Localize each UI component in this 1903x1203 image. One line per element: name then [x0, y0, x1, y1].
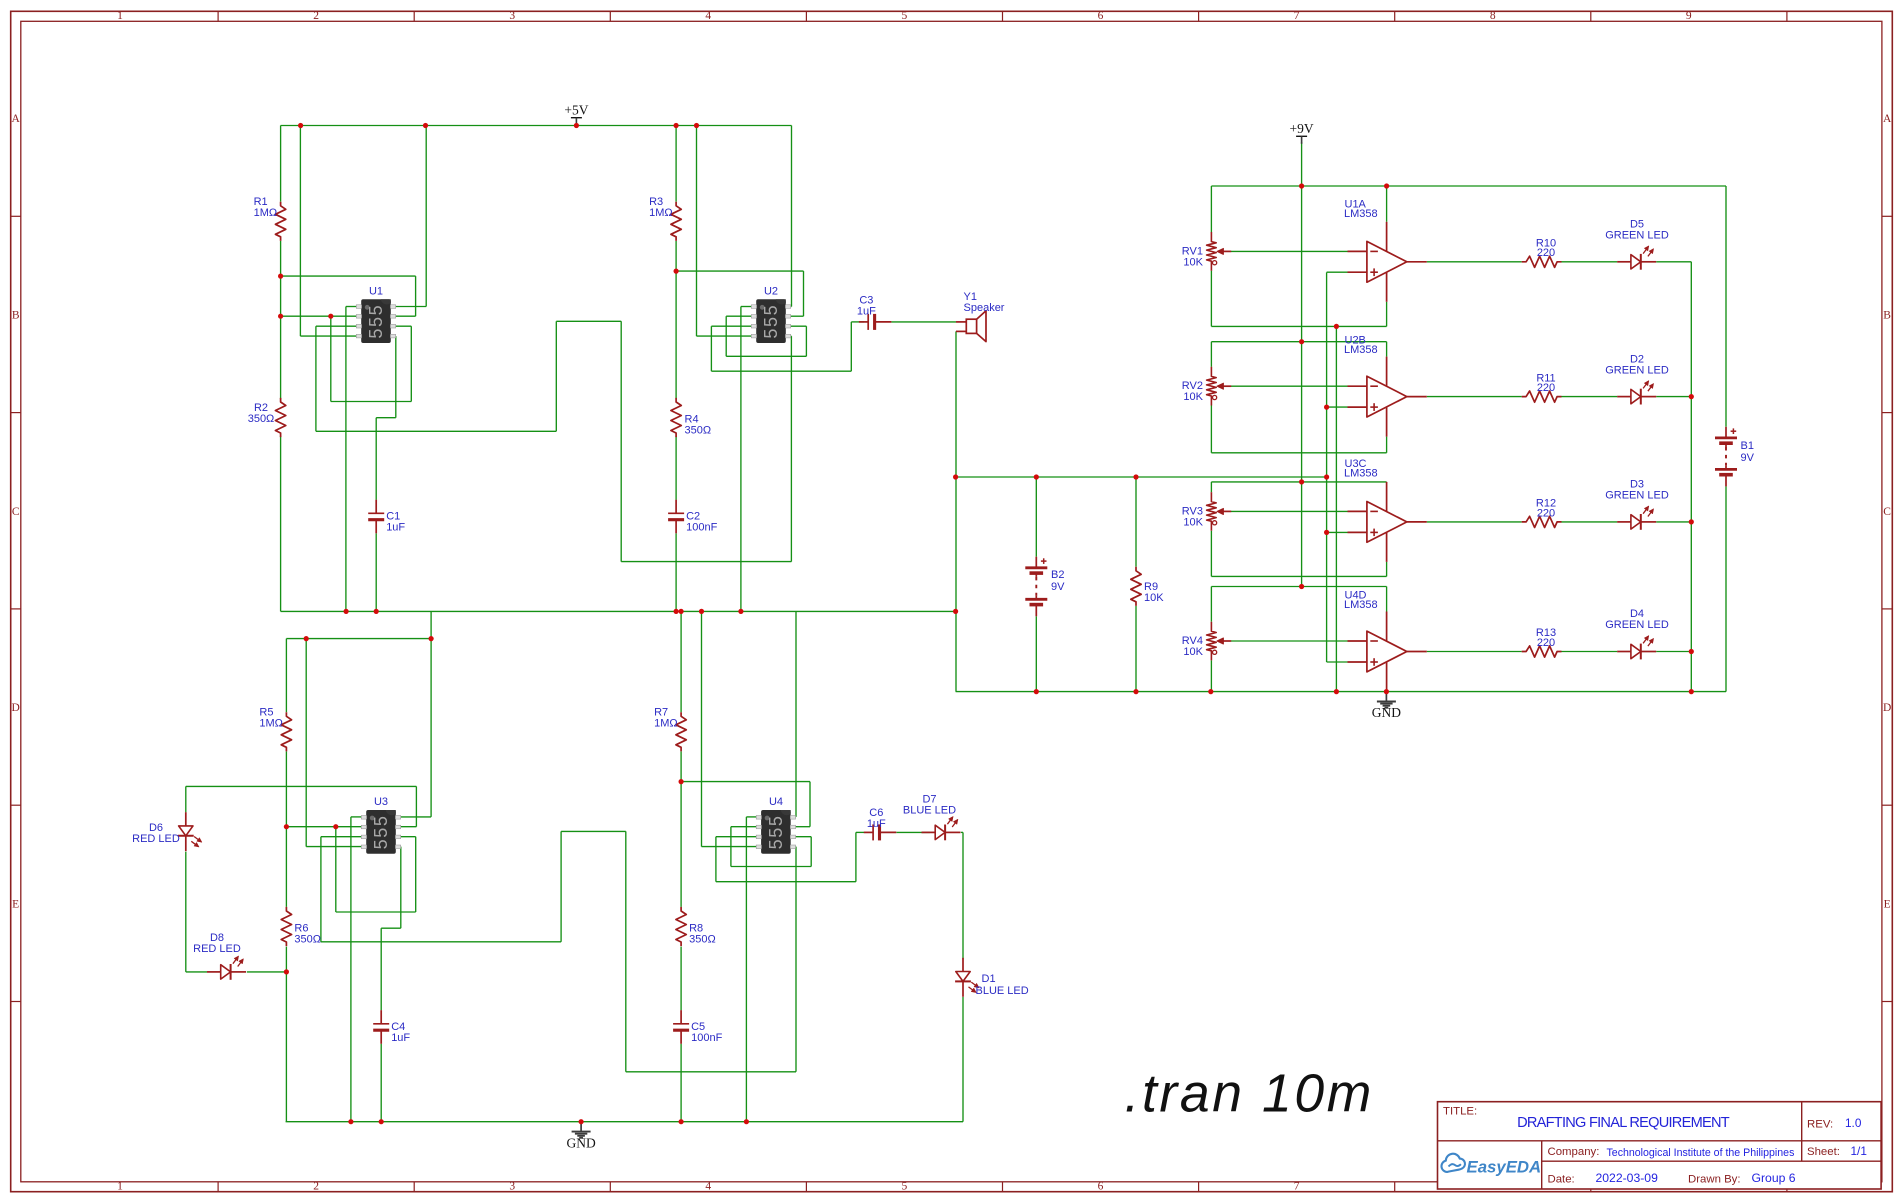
op-amp U2B LM358 [1348, 357, 1427, 437]
wire R6 node to bottom rail [285, 972, 287, 1122]
wire U2 pin4L reset [697, 126, 752, 337]
svg-text:220: 220 [1537, 507, 1555, 519]
svg-text:Group 6: Group 6 [1752, 1171, 1796, 1185]
speaker Y1 [956, 311, 986, 342]
wire U1 pin4R to C1 [376, 336, 396, 418]
wire U4 pin3L output to C6 [716, 832, 864, 881]
label R1 [254, 196, 278, 219]
wire RV1 wiper to inverting input [1231, 250, 1348, 252]
REV label [1807, 1119, 1833, 1131]
op-amp top +9V rail [1211, 185, 1726, 187]
title block TITLE label [1443, 1106, 1477, 1118]
svg-text:9: 9 [1686, 10, 1692, 22]
svg-text:LM358: LM358 [1344, 599, 1378, 611]
label C4 [391, 1021, 410, 1044]
wire U3 pin1R vcc [399, 639, 431, 817]
svg-text:GND: GND [1372, 705, 1401, 720]
label U3 [374, 796, 388, 808]
svg-text:RED LED: RED LED [193, 943, 241, 955]
svg-text:TITLE:: TITLE: [1443, 1106, 1477, 1118]
wire U1 pin2L trigger [281, 315, 357, 317]
LED D3 green [1617, 506, 1656, 530]
label D1 [976, 973, 1029, 997]
wire noninverting input bus tap stage 1 [1327, 271, 1348, 273]
svg-text:1uF: 1uF [857, 305, 876, 317]
wire R1-R2 vertical upper [280, 126, 282, 202]
svg-text:10K: 10K [1144, 592, 1164, 604]
op-amp stage 3 top rail wire [1211, 481, 1386, 483]
svg-text:9V: 9V [1741, 452, 1755, 464]
wire U2 pin2L-pin3R loop [726, 316, 806, 356]
svg-text:3: 3 [509, 1181, 515, 1193]
wire R9 bottom [1135, 606, 1137, 692]
label U1 [369, 286, 383, 298]
resistor R13 220 [1522, 646, 1562, 657]
wire U3 pin1L gnd drop [351, 817, 362, 1122]
IC U4 555 timer [756, 810, 795, 854]
svg-text:555: 555 [761, 304, 781, 339]
wire C5 to bottom rail [680, 1044, 682, 1122]
wire noninverting input bus tap stage 3 [1327, 531, 1348, 533]
label D2 [1605, 353, 1669, 376]
wire D2 cathode [1656, 396, 1691, 398]
svg-text:A: A [12, 113, 21, 125]
label D4 [1605, 608, 1669, 631]
svg-text:B: B [1883, 310, 1891, 322]
label D3 [1605, 479, 1669, 502]
capacitor C4 [373, 1010, 389, 1044]
wire U3 pin4L reset [306, 639, 361, 847]
resistor R4 [671, 398, 681, 437]
label R7 [654, 707, 678, 730]
svg-text:U3: U3 [374, 796, 388, 808]
resistor R10 220 [1522, 256, 1562, 267]
wire D7 to D1 [961, 832, 963, 959]
svg-text:1.0: 1.0 [1845, 1116, 1862, 1130]
wire U1 pin2R to R1-R2 node [281, 276, 416, 316]
LED D6 red [178, 812, 202, 851]
wire R5-R6 vertical [285, 752, 287, 907]
wire mid-rail to sub-rail drop [430, 611, 432, 638]
wire U4 pin4L reset [702, 611, 757, 846]
resistor R1 [275, 202, 285, 241]
svg-text:GREEN LED: GREEN LED [1605, 230, 1669, 242]
+9V power flag [1290, 121, 1314, 144]
+9V drop wire [1301, 142, 1303, 587]
wire U1 pin1R vcc [394, 126, 426, 307]
wire RV4 box left upper [1210, 587, 1212, 622]
wire R7-R8 node [680, 752, 682, 782]
svg-text:1/1: 1/1 [1851, 1144, 1867, 1158]
DrawnBy label [1688, 1174, 1741, 1186]
label U4 [769, 796, 783, 808]
Company label [1548, 1146, 1600, 1158]
label U4D [1344, 590, 1378, 612]
label RV2 [1182, 380, 1204, 403]
op-amp U4D LM358 [1348, 612, 1427, 692]
wire U4 pin2R to R7-R8 node [681, 782, 810, 827]
label U1A [1344, 199, 1378, 221]
label RV1 [1182, 245, 1204, 268]
wire RV1 box left lower [1210, 271, 1212, 327]
wire U3 pin2L trigger [286, 826, 361, 828]
svg-text:BLUE LED: BLUE LED [903, 805, 956, 817]
bottom ground rail wire [286, 1121, 963, 1123]
svg-text:Company:: Company: [1548, 1146, 1600, 1158]
wire RV2 box left lower [1210, 406, 1212, 453]
label RV4 [1182, 635, 1204, 658]
svg-text:555: 555 [766, 814, 786, 849]
wire B2 bottom [1035, 616, 1037, 691]
wire B1 negative to ground rail [1725, 486, 1727, 691]
sub rail wire [286, 638, 431, 640]
wire U3C V- drop [1386, 562, 1388, 577]
svg-text:GREEN LED: GREEN LED [1605, 490, 1669, 502]
svg-text:1MΩ: 1MΩ [654, 718, 678, 730]
battery B2 9V [1025, 557, 1047, 617]
title text [1517, 1115, 1730, 1131]
Date value [1596, 1171, 1659, 1185]
op-amp stage 3 bottom rail wire [1211, 575, 1386, 577]
svg-text:220: 220 [1537, 247, 1555, 259]
svg-text:B1: B1 [1741, 440, 1754, 452]
svg-text:+5V: +5V [564, 103, 588, 118]
wire U3 pin3L output run to U4 pin4R [321, 831, 796, 1071]
wire D5 cathode [1656, 261, 1691, 263]
svg-text:4: 4 [705, 10, 711, 22]
svg-text:E: E [12, 898, 19, 910]
wire R9 top [1135, 477, 1137, 567]
svg-text:BLUE LED: BLUE LED [976, 985, 1029, 997]
label U3C [1344, 458, 1378, 480]
LED cathode rail wire [1690, 262, 1692, 692]
wire U4D V- drop [1386, 691, 1388, 693]
resistor R7 [676, 712, 686, 751]
op-amp stage 2 bottom rail wire [1211, 452, 1386, 454]
op-amp U1A LM358 [1348, 222, 1427, 302]
ground symbol left [566, 1122, 595, 1151]
resistor R9 [1131, 567, 1141, 606]
svg-text:D: D [12, 702, 20, 714]
label C5 [691, 1021, 722, 1044]
svg-text:7: 7 [1294, 10, 1300, 22]
wire R1 to junctions [280, 241, 282, 399]
wire U1 pin2L-pin3R loop [331, 316, 412, 401]
wire U2 pin1R vcc [790, 126, 792, 307]
label B1 [1741, 440, 1755, 464]
+5V power flag [564, 103, 588, 126]
svg-text:1uF: 1uF [391, 1032, 410, 1044]
wire D6 anode [185, 786, 187, 812]
title block frame [1438, 1102, 1882, 1189]
gnd link vertical wire [1335, 326, 1337, 691]
resistor R11 220 [1522, 391, 1562, 402]
svg-text:D1: D1 [982, 973, 996, 985]
wire U4 pin1L gnd drop [746, 817, 756, 1122]
svg-text:100nF: 100nF [686, 522, 717, 534]
label R9 [1144, 581, 1164, 604]
wire D4 cathode [1656, 651, 1691, 653]
op-amp stage 1 bottom rail wire [1211, 325, 1386, 327]
label R13 [1536, 627, 1556, 649]
svg-text:9V: 9V [1051, 581, 1065, 593]
plus-input bus wire [1326, 272, 1328, 662]
svg-text:6: 6 [1098, 1181, 1104, 1193]
LED D1 blue [955, 958, 979, 997]
svg-text:5: 5 [902, 1181, 908, 1193]
label R10 [1536, 238, 1556, 260]
wire B1 positive [1725, 186, 1727, 427]
wire R11 to D2 [1562, 396, 1618, 398]
svg-text:100nF: 100nF [691, 1032, 722, 1044]
capacitor C3 [859, 314, 892, 330]
svg-text:2: 2 [313, 1181, 319, 1193]
wire U1 pin1L gnd drop [346, 307, 357, 612]
wire R6 bottom node [285, 947, 287, 972]
wire U2 pin2R to R3-R4 node [676, 271, 803, 316]
LED D5 green [1617, 246, 1656, 270]
LED D2 green [1617, 381, 1656, 405]
wire D6 to D8 [186, 852, 207, 972]
LED D8 red [207, 956, 246, 980]
svg-text:10K: 10K [1183, 256, 1203, 268]
wire U1A V- drop [1386, 302, 1388, 327]
svg-text:E: E [1884, 898, 1891, 910]
svg-text:7: 7 [1294, 1181, 1300, 1193]
capacitor C6 [864, 824, 897, 840]
svg-text:350Ω: 350Ω [689, 934, 716, 946]
svg-text:DRAFTING FINAL REQUIREMENT: DRAFTING FINAL REQUIREMENT [1517, 1115, 1730, 1131]
resistor R2 [275, 398, 285, 437]
svg-text:U4: U4 [769, 796, 783, 808]
Date label [1548, 1174, 1575, 1186]
wire B2 top [1035, 477, 1037, 557]
label C1 [386, 511, 405, 534]
svg-text:10K: 10K [1183, 517, 1203, 529]
svg-text:1MΩ: 1MΩ [259, 718, 283, 730]
label C2 [686, 511, 717, 534]
svg-text:A: A [1883, 113, 1892, 125]
svg-text:LM358: LM358 [1344, 468, 1378, 480]
label U2B [1344, 335, 1378, 357]
svg-text:1uF: 1uF [867, 818, 886, 830]
label R4 [685, 414, 712, 437]
wire R5 top [285, 639, 287, 713]
label D5 [1605, 219, 1669, 242]
ground bottom rail right section [956, 691, 1726, 693]
wire U1 pin4L reset [300, 126, 356, 337]
wire U1A V+ drop [1386, 186, 1388, 222]
resistor R3 [671, 202, 681, 241]
svg-text:U1: U1 [369, 286, 383, 298]
wire R2 to mid rail [280, 436, 282, 611]
LED D4 green [1617, 636, 1656, 660]
wire U3 pin2L-pin3R loop [336, 827, 416, 912]
svg-text:GREEN LED: GREEN LED [1605, 619, 1669, 631]
LED D7 blue [922, 817, 961, 841]
wire RV1 box left upper [1210, 186, 1212, 232]
label RV3 [1182, 506, 1204, 529]
svg-text:1MΩ: 1MΩ [254, 207, 278, 219]
svg-text:220: 220 [1537, 382, 1555, 394]
svg-text:555: 555 [371, 814, 391, 849]
op-amp U3C LM358 [1348, 482, 1427, 562]
wire RV2 wiper to inverting input [1231, 385, 1348, 387]
label D6 [132, 822, 180, 845]
label U2 [764, 286, 778, 298]
REV value [1845, 1116, 1862, 1130]
svg-text:3: 3 [509, 10, 515, 22]
svg-text:220: 220 [1537, 637, 1555, 649]
svg-text:Date:: Date: [1548, 1174, 1575, 1186]
wire RV4 wiper to inverting input [1231, 640, 1348, 642]
label R5 [259, 707, 283, 730]
Sheet label [1807, 1146, 1840, 1158]
IC U2 555 timer [751, 299, 790, 343]
+5V top rail wire [281, 125, 792, 127]
potentiometer RV2 10K [1207, 367, 1232, 406]
wire speaker return drop [955, 331, 957, 691]
spice directive text [1125, 1065, 1374, 1124]
svg-text:RED LED: RED LED [132, 833, 180, 845]
wire U3 pin2R to D6 top [186, 786, 417, 826]
label C6 [867, 807, 886, 830]
svg-text:D: D [1883, 702, 1891, 714]
svg-text:Speaker: Speaker [964, 302, 1005, 314]
svg-text:1uF: 1uF [386, 522, 405, 534]
wire U4D output to R13 [1427, 651, 1522, 653]
wire C3 to speaker [891, 321, 956, 323]
svg-text:350Ω: 350Ω [294, 934, 321, 946]
wire RV3 box left upper [1210, 482, 1212, 492]
wire D3 cathode [1656, 521, 1691, 523]
resistor R5 [281, 712, 291, 751]
svg-text:+9V: +9V [1290, 121, 1314, 136]
wire R8 to C5 [680, 947, 682, 1011]
svg-text:Sheet:: Sheet: [1807, 1146, 1840, 1158]
resistor R6 [281, 907, 291, 946]
svg-text:REV:: REV: [1807, 1119, 1833, 1131]
svg-text:1: 1 [117, 1181, 123, 1193]
potentiometer RV3 10K [1207, 492, 1232, 531]
wire RV3 wiper to inverting input [1231, 510, 1348, 512]
potentiometer RV1 10K [1207, 232, 1232, 271]
wire U3C output to R12 [1427, 521, 1522, 523]
wire U2B output to R11 [1427, 396, 1522, 398]
wire C1 vertical [375, 418, 377, 612]
label R11 [1536, 372, 1555, 394]
capacitor C5 [673, 1010, 689, 1044]
battery B1 9V [1715, 427, 1737, 487]
svg-text:LM358: LM358 [1344, 344, 1378, 356]
wire D8 to R6 node [247, 971, 287, 973]
label B2 [1051, 569, 1065, 593]
Company value [1607, 1147, 1795, 1159]
ground symbol right [1372, 692, 1401, 721]
wire C2 to mid rail [675, 533, 677, 611]
EasyEDA logo [1441, 1154, 1541, 1177]
label R6 [294, 923, 321, 946]
svg-text:1MΩ: 1MΩ [649, 207, 673, 219]
DrawnBy value [1752, 1171, 1796, 1185]
wire U2 pin3L output to C3 [711, 322, 864, 371]
svg-text:6: 6 [1098, 10, 1104, 22]
svg-text:Drawn By:: Drawn By: [1688, 1174, 1741, 1186]
wire R4 to C2 [675, 436, 677, 500]
wire R3-R4 node vertical [675, 241, 677, 399]
wire mid rail to B2 rail [956, 476, 1327, 478]
svg-text:Technological Institute of the: Technological Institute of the Philippin… [1607, 1147, 1795, 1159]
svg-text:C: C [12, 506, 20, 518]
wire U3 pin4R to C4 [381, 847, 401, 929]
svg-text:5: 5 [902, 10, 908, 22]
wire R3 top [675, 126, 677, 202]
IC U1 555 timer [356, 299, 395, 343]
resistor R8 [676, 907, 686, 946]
svg-text:GND: GND [566, 1135, 595, 1150]
wire U2B V+ drop [1386, 342, 1388, 357]
svg-text:2: 2 [313, 10, 319, 22]
svg-text:B2: B2 [1051, 569, 1064, 581]
wire R7R8 node to R8 [680, 782, 682, 907]
wire R10 to D5 [1562, 261, 1618, 263]
wire D1 to bottom rail [962, 997, 964, 1122]
label C3 [857, 294, 876, 317]
wire C6 to D7 [896, 831, 930, 833]
svg-text:LM358: LM358 [1344, 208, 1378, 220]
label R8 [689, 923, 716, 946]
svg-text:U2: U2 [764, 286, 778, 298]
svg-text:EasyEDA: EasyEDA [1467, 1158, 1542, 1177]
label D8 [193, 932, 241, 955]
label R3 [649, 196, 673, 219]
label D7 [903, 794, 956, 817]
svg-text:C: C [1883, 506, 1891, 518]
wire RV3 box left lower [1210, 531, 1212, 577]
wire RV2 box left upper [1210, 342, 1212, 367]
wire U2B V- drop [1386, 437, 1388, 453]
label Y1 [964, 291, 1005, 314]
svg-text:350Ω: 350Ω [248, 413, 275, 425]
svg-text:1: 1 [117, 10, 123, 22]
resistor R12 220 [1522, 516, 1562, 527]
wire U1A output to R10 [1427, 261, 1522, 263]
wire noninverting input bus tap stage 4 [1327, 661, 1348, 663]
wire U4 pin2L-pin3R loop [731, 827, 811, 867]
capacitor C2 [668, 500, 684, 534]
wire R12 to D3 [1562, 521, 1618, 523]
svg-text:8: 8 [1490, 10, 1496, 22]
label R2 [248, 402, 275, 425]
wire U3C V+ drop [1386, 481, 1388, 483]
wire R13 to D4 [1562, 651, 1618, 653]
svg-text:2022-03-09: 2022-03-09 [1596, 1171, 1659, 1185]
svg-text:GREEN LED: GREEN LED [1605, 364, 1669, 376]
svg-text:350Ω: 350Ω [685, 425, 712, 437]
wire U1 pin3L output run to U2 pin4R [316, 321, 792, 561]
wire C4 vertical [380, 928, 382, 1121]
Sheet value [1851, 1144, 1867, 1158]
potentiometer RV4 10K [1207, 622, 1232, 661]
svg-text:B: B [12, 310, 20, 322]
mid ground rail wire [281, 610, 956, 612]
wire U4 pin1R vcc [795, 611, 796, 817]
wire RV4 box left lower [1210, 660, 1212, 691]
svg-text:10K: 10K [1183, 646, 1203, 658]
svg-text:.tran 10m: .tran 10m [1125, 1065, 1374, 1124]
svg-text:555: 555 [366, 304, 386, 339]
capacitor C1 [368, 500, 384, 534]
